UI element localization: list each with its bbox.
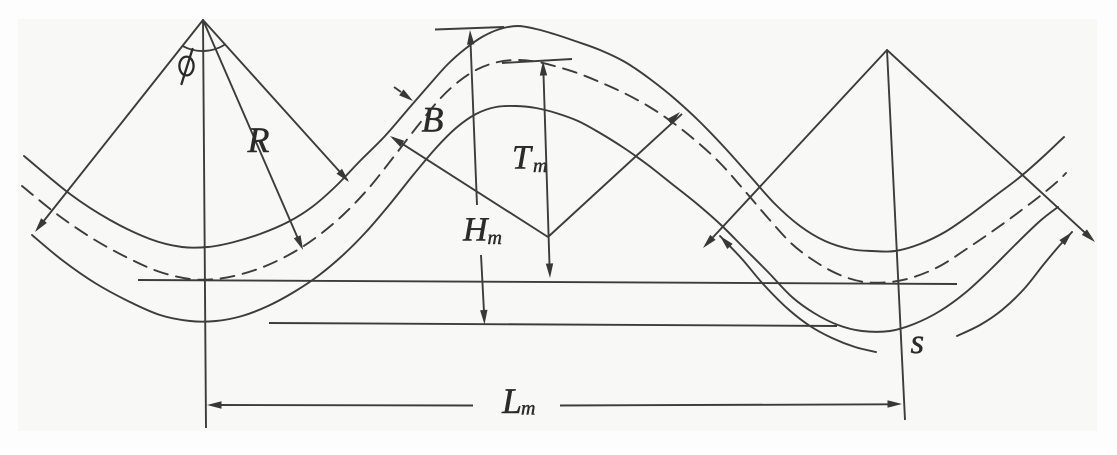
left apex triangle right ray with arrow: [203, 20, 347, 180]
label Tm: [514, 146, 546, 172]
B width arrow outside: [394, 87, 401, 92]
meander dashed centerline: [22, 60, 1066, 283]
radius ray R with arrow: [203, 20, 302, 247]
Lm dimension line left part with left arrow: [220, 404, 473, 407]
label s: [911, 337, 923, 354]
Tm top tangent tick: [502, 59, 572, 63]
crest radius ray to outer edge upper-left with arrow (B): [393, 138, 549, 237]
arc-length s left piece with arrow: [720, 236, 876, 352]
Hm dimension line upper part with up arrow: [471, 44, 477, 205]
label R: [247, 128, 269, 152]
meander outer edge curve: [24, 26, 1064, 252]
Hm dimension line lower part with down arrow: [481, 255, 484, 312]
horizontal line through inner valleys: [269, 323, 837, 326]
Hm top tangent tick: [435, 27, 504, 30]
label Lm: [502, 389, 535, 414]
label Hm: [463, 218, 501, 244]
Tm dimension line with arrows both ends: [544, 74, 550, 265]
right apex triangle right ray with arrow: [887, 50, 1092, 239]
Lm dimension line right part with right arrow: [560, 404, 889, 405]
horizontal line through centerline valleys: [138, 280, 957, 284]
meander inner edge curve: [32, 106, 1058, 332]
right apex triangle left ray with arrow: [706, 50, 887, 245]
right vertical centerline: [887, 50, 905, 420]
arc-length s right piece with arrow: [957, 232, 1072, 336]
left apex triangle left ray with arrow: [38, 20, 204, 229]
label B: [422, 108, 443, 132]
label phi (drawn): [179, 57, 193, 76]
crest radius ray to outer edge upper-right with arrow: [548, 114, 682, 237]
left vertical centerline: [203, 20, 206, 428]
angle arc phi: [183, 45, 226, 52]
